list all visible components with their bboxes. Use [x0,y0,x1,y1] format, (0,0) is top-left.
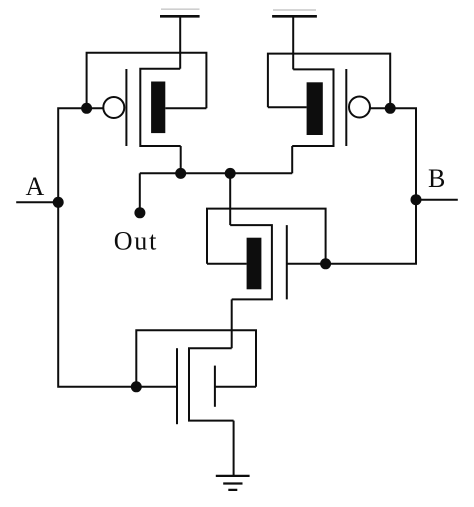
node A terminal stub [16,201,58,203]
transistor M2 gate bubble [349,97,370,118]
wire: M3 back-gate arm [207,263,247,265]
transistor M1 front gate line [125,69,127,146]
transistor M4 back-gate line [214,366,216,407]
wire: M2 source down to output rail [291,146,293,173]
transistor M2 back-gate bar [307,82,323,135]
transistor M3 back-gate bar [247,238,262,290]
transistor M2 (top-right PMOS, double-gate) channel [292,69,333,146]
transistor M3 (middle, double-gate) channel [230,225,272,299]
junction: M3 drain on output rail [225,168,236,179]
wire: VDD right to M2 drain [292,16,294,69]
wire: M1 gate node to bubble [87,107,104,109]
wire: M3 gate arm to gate node [287,263,326,265]
wire: output rail [140,172,292,174]
junction node B [411,194,422,205]
node Out terminal dot [134,207,145,218]
power supply VDD right (ghost upper line) [273,9,316,11]
junction M3 gate node [320,258,331,269]
power supply VDD left (ghost upper line) [161,8,200,10]
wire: M2 gate node to bubble [370,107,391,109]
wire: output rail down to M3 drain [229,173,231,225]
wire: M4 source down to ground [233,421,235,476]
svg-text:B: B [428,164,445,193]
wire: Out stub [139,173,141,213]
wire: M2 gate loop (back-gate to gate node) [268,54,390,109]
transistor M4 (bottom NMOS, double-gate) channel [189,348,234,420]
wire: M4 gate loop (gate node to back-gate) [136,330,256,387]
transistor M1 back-gate bar [151,82,165,134]
wire: M1 back-gate arm [165,107,206,109]
wire: M2 back-gate arm [268,106,307,108]
wire: node B down to M3 gate node [326,200,416,264]
node B terminal stub [416,199,458,201]
wire: VDD left to M1 drain [179,16,181,68]
junction M1 gate node [81,103,92,114]
wire: M3 gate loop (back-gate to gate node) [207,209,326,264]
ground symbol [216,476,250,490]
transistor M1 (top-left PMOS, double-gate) channel [140,69,180,146]
power supply VDD right bar [272,15,317,18]
wire: M1 gate loop (back-gate to gate node) [87,53,207,109]
svg-text:Out: Out [114,227,158,256]
wire: M3 source to M4 drain [231,299,233,348]
wire: M4 gate node to front gate [136,386,177,388]
wire: node A vertical down to M4 gate node [58,202,136,386]
wire: M1 gate node to node A vertical [58,108,86,202]
svg-text:A: A [26,172,45,201]
transistor M3 front gate line [286,225,288,299]
wire: M2 gate node to node B vertical [390,108,416,199]
junction M4 gate node [131,381,142,392]
wire: M4 back-gate arm [215,386,256,388]
wire: M1 source down to output rail [180,146,182,173]
junction M2 gate node [385,103,396,114]
transistor M2 front gate line [345,69,347,146]
transistor M4 front gate line [176,348,178,424]
transistor M1 gate bubble [103,97,124,118]
power supply VDD left bar [160,15,200,18]
junction: M1 source on output rail [175,168,186,179]
junction node A [53,197,64,208]
